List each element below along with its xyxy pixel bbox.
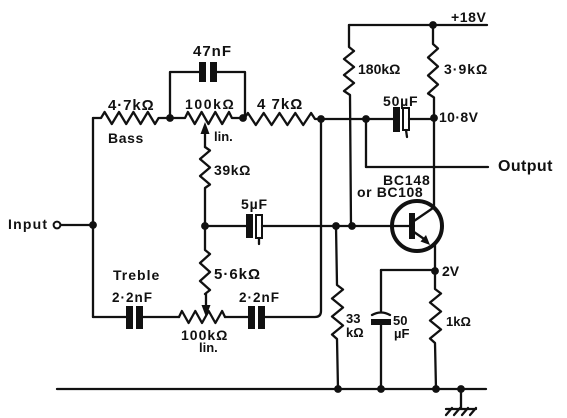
input terminal circle [54,222,61,229]
ground rail [57,388,486,390]
junction: bass pot right / 47nF right [239,114,247,122]
potentiometer 100kΩ treble: track [179,311,225,323]
wire: right 4.7k to output tap [321,118,366,120]
resistor 4.7kΩ (right) [243,113,321,125]
potentiometer bass: wiper arrow [201,122,210,134]
svg-text:lin.: lin. [199,340,218,355]
wire: output tap drop [365,119,367,167]
capacitor 50µF emitter bypass: curved plate [372,313,390,316]
wire: treble line mid-left [143,316,179,318]
wire: collector lead down from 10.8V node [433,118,435,207]
svg-text:2·2nF: 2·2nF [112,290,153,305]
svg-text:+18V: +18V [451,9,487,25]
svg-text:4 7kΩ: 4 7kΩ [257,96,303,113]
resistor 1kΩ [430,271,441,389]
capacitor 47nF: left plate [199,62,206,82]
junction: input node [89,221,97,229]
svg-text:10·8V: 10·8V [439,109,479,125]
svg-text:47nF: 47nF [193,43,232,60]
transistor Q1: collector stroke [414,208,433,221]
capacitor 5µF: solid plate [246,214,253,238]
junction: 33k top on base line [332,222,340,230]
svg-text:Treble: Treble [113,267,160,283]
wire: treble line mid-right [225,316,248,318]
junction: 180k bottom on base line [348,222,356,230]
svg-text:Output: Output [498,158,553,175]
svg-text:1kΩ: 1kΩ [446,314,471,329]
svg-text:5·6kΩ: 5·6kΩ [214,266,261,283]
capacitor 2.2nF left: plate B [136,306,143,329]
wire: treble line left [93,316,126,318]
potentiometer bass: wiper lead [204,132,206,147]
potentiometer treble: wiper arrow [202,305,211,317]
svg-text:µF: µF [394,326,409,341]
resistor 39kΩ [200,147,210,226]
wire: treble line right and riser to feedback node [265,119,321,317]
capacitor 2.2nF left: plate A [126,306,133,329]
capacitor 50µF emitter bypass: solid plate [371,319,391,325]
svg-text:3·9kΩ: 3·9kΩ [444,61,488,77]
junction: 50µF on ground rail [377,385,385,393]
resistor 180kΩ [344,25,354,226]
transistor Q1: base bar [409,213,415,239]
svg-text:100kΩ: 100kΩ [185,96,235,112]
wire: output line [366,166,488,168]
svg-text:Bass: Bass [108,130,144,146]
wire: bypass cap top lead [380,270,382,311]
svg-text:or BC108: or BC108 [357,184,423,200]
capacitor 50µF bypass: bottom lead [380,325,382,389]
svg-text:180kΩ: 180kΩ [358,61,400,77]
capacitor 50µF output coupling: hollow plate [403,108,409,130]
node 2V (emitter) [431,267,439,275]
junction: 1k on ground rail [432,385,440,393]
capacitor 2.2nF right: plate B [258,306,265,329]
transistor Q1: emitter stroke [414,232,427,241]
svg-text:50µF: 50µF [383,93,418,109]
svg-text:2·2nF: 2·2nF [239,290,280,305]
junction: output tap left of 50µF [362,115,370,123]
svg-text:4·7kΩ: 4·7kΩ [108,97,155,114]
capacitor 50µF output coupling: solid plate [393,107,400,132]
junction: bass pot left / 47nF left [166,114,174,122]
ground symbol [446,408,476,415]
potentiometer treble: wiper lead [205,294,207,306]
capacitor 5µF: tail [258,238,260,244]
resistor 5.6kΩ [200,226,210,294]
svg-text:33: 33 [346,311,360,326]
wire: node to 5µF cap [205,225,246,227]
wire: 47nF loop [170,72,245,118]
junction: feedback node [317,115,325,123]
capacitor 47nF: right plate [210,62,217,82]
transistor Q1 BC148/BC108: body circle [392,201,442,251]
wire: left of 50µF on collector feed line [366,118,393,120]
junction: 39k/5.6k node to 5µF [201,222,209,230]
svg-text:Input: Input [8,216,48,232]
capacitor 2.2nF right: plate A [248,306,255,329]
junction: 33k on ground rail [334,385,342,393]
capacitor 5µF: hollow plate [256,215,262,238]
capacitor 50µF coupling: tail [406,130,407,137]
potentiometer 100kΩ bass: track [170,112,243,124]
resistor 33kΩ [332,226,343,389]
wire: input to junction [61,224,93,226]
resistor 4.7kΩ (bass, left) [93,112,170,124]
wire: left vertical bus [92,118,94,317]
node 10.8V (collector top junction) [430,114,438,122]
wire: emitter bypass branch horizontal [381,269,435,271]
+18V supply rail [349,24,487,26]
svg-text:5µF: 5µF [241,196,268,212]
resistor 3.9kΩ [428,25,438,117]
svg-text:kΩ: kΩ [346,325,364,340]
svg-text:39kΩ: 39kΩ [214,162,251,178]
svg-text:lin.: lin. [214,129,233,144]
svg-text:2V: 2V [442,263,460,279]
junction: 3.9k top on +18V rail [429,21,437,29]
junction: ground symbol tap [457,385,465,393]
wire: base line from 5µF to transistor [262,225,410,227]
wire: right of 50µF to 10.8V node [409,118,434,120]
wire: emitter lead down to 2V node [434,245,436,271]
ground symbol lead [460,389,462,408]
transistor Q1: emitter arrowhead [421,235,431,245]
